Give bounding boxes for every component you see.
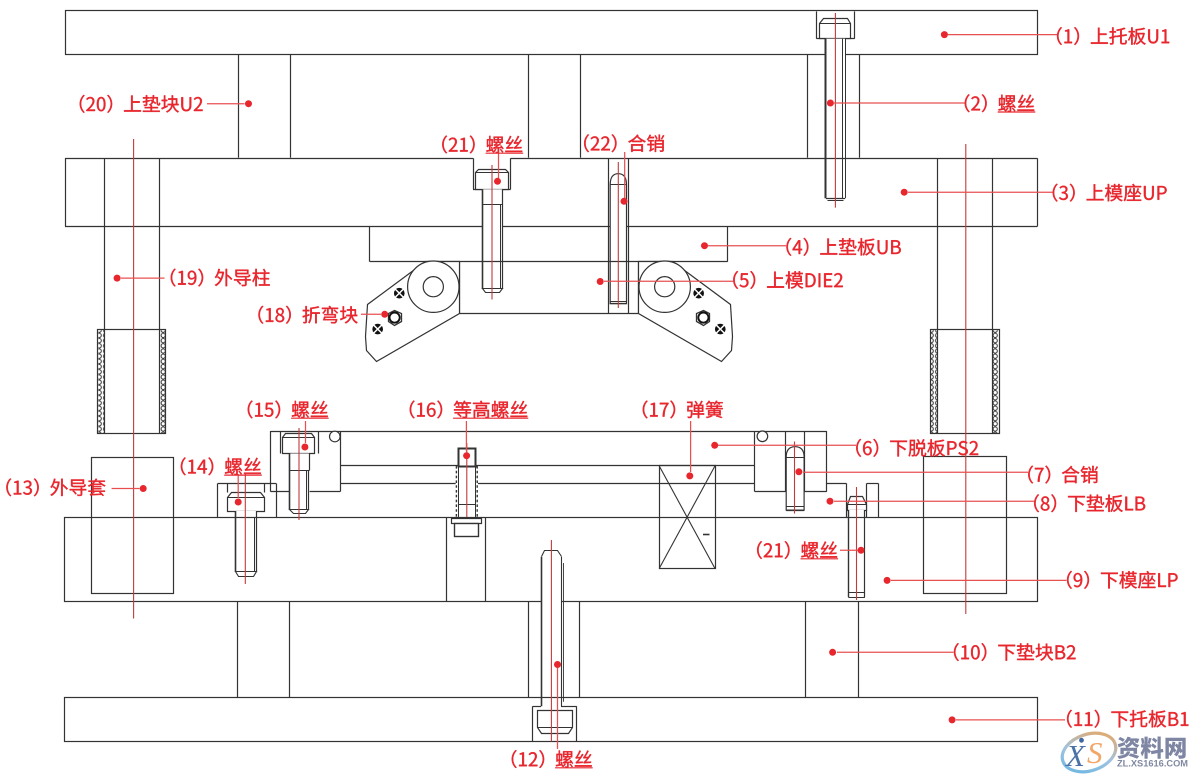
label (8) 下垫板LB [1034,494,1145,512]
shoulder screw S16 nut end [455,524,479,537]
leader dot 8 [827,498,834,505]
screw S21b (21 螺丝) head [848,497,867,511]
base plate B1 (11 下托板B1) [65,698,1038,742]
label (22) 合销 [584,134,664,152]
leader line 8 [834,500,1034,502]
screw S12 (12 螺丝) shaft [541,551,561,707]
leader dot 18 [381,311,388,318]
centerline right guide post axis [965,144,967,614]
leader dot 12 [554,661,561,668]
lower spacer B2 left column (10 下垫块B2) [237,601,239,697]
centerline screw S21b axis [856,487,858,600]
shoulder screw S16 (16 等高螺丝) threaded sleeve [456,466,478,517]
leader line 5 [604,280,733,282]
screw S2 (2 螺丝) head [820,19,851,39]
label (16) 等高螺丝 [410,401,528,419]
hex bushing on right bending block [697,311,710,326]
shoulder screw S16 head [459,449,476,467]
screw S21a tip [483,289,503,293]
PS2 left end block [270,431,272,492]
watermark 资料网 [1117,736,1185,758]
leader line 22 [624,152,626,198]
label (5) 上模DIE2 [733,271,843,289]
leader line 17 [690,421,692,472]
lower die plate edge (under PS2) [340,483,755,485]
leader dot 20 [245,100,252,107]
PS2 right end block [754,431,756,492]
svg-text:ZL.XS1616.COM: ZL.XS1616.COM [1117,759,1188,769]
label (4) 上垫板UB [786,238,900,256]
screw S12 head [538,711,573,734]
screw S15 pocket in PS2 block [280,431,282,454]
backing plate LB (8 下垫板LB) right segments [826,483,846,485]
label (15) 螺丝 [248,401,328,419]
screw S14 (14 螺丝) head [228,493,265,512]
leader dot 21a [494,178,501,185]
leader line 21b [840,549,858,551]
screw S21a neck and shaft [482,189,502,289]
label (11) 下托板B1 [1067,710,1188,728]
leader line 1 [948,34,1057,36]
guide post hole right through UP [937,158,939,226]
spring SP17 (17 弹簧) [660,466,716,569]
screw S21a (21 螺丝) head [476,170,509,190]
centerline screw S2 axis [834,13,836,208]
label (9) 下模座LP [1067,571,1177,589]
leader dot 1 [941,31,948,38]
leader dot 13 [140,485,147,492]
svg-text:X: X [1064,738,1086,773]
svg-text:S: S [1087,735,1103,770]
leader line 15 [305,421,307,443]
roller left on DIE2 [408,261,459,312]
bending block left (18 折弯块) [366,262,460,362]
spacer block U2 left column [238,55,240,158]
leader dot 16 [463,452,470,459]
lower die holder LP (9 下模座LP) [65,518,1038,602]
upper die DIE2 (5 上模DIE2) block [459,262,461,313]
leader dot 15 [301,444,308,451]
spacer block U2 right column [807,55,809,158]
leader dot 21b [858,547,865,554]
label (18) 折弯块 [258,306,357,324]
label (7) 合销 [1028,466,1098,484]
watermark logo dot [1079,738,1084,743]
screw S14 tip [236,572,257,577]
screw S14 pocket [227,483,229,492]
bending block right (18 折弯块) [639,262,733,362]
lower spacer B2 middle column [528,601,530,697]
screw S2 counterbore pocket in U1 [816,11,818,38]
dowel pin P7 channel in PS2 right block [785,431,787,492]
leader line 3 [908,191,1053,193]
label (17) 弹簧 [643,401,723,419]
leader dot 7 [795,468,802,475]
leader dot 5 [597,278,604,285]
label (2) 螺丝 [965,94,1034,112]
screw S21a pocket in UP [473,158,475,189]
leader line 20 [207,103,245,105]
leader dot 11 [949,716,956,723]
small pin hole circle left on PS2 [330,431,341,442]
stripper plate PS2 (6 下脱板PS2) top strip [271,431,827,433]
leader line 6 [718,444,856,446]
centerline screw S12 axis [550,540,552,741]
plate UB (4 上垫板UB) [369,227,371,262]
leader dot 19 [114,275,121,282]
leader dot 14 [235,499,242,506]
screw S2 tip [826,198,845,200]
leader line 14 [237,474,239,498]
label (20) 上垫块U2 [80,95,203,113]
guide post left knurled sleeve [98,330,166,434]
centerline screw S16 axis [466,443,468,517]
leader line 7 [803,471,1028,473]
screw S15 (15 螺丝) head [283,434,315,454]
plate UP (3 上模座UP) [65,158,473,160]
hex bushing on left bending block [389,311,402,326]
centerline screw S15 axis [298,428,300,520]
label (19) 外导柱 [171,269,270,287]
leader dot 3 [901,189,908,196]
dowel pin P7 (7 合销) body [786,447,804,510]
guide post left (19 外导柱) [104,227,106,434]
guide post right knurled sleeve [931,330,1000,434]
small pin hole circle right on PS2 [757,431,768,442]
centerline pin P22 axis [617,162,619,308]
screw S14 shaft [235,511,257,572]
PS2 strip bottom edge [340,465,755,467]
centerline pin P7 axis [794,442,796,514]
label (3) 上模座UP [1053,184,1167,202]
watermark logo ellipse [1057,727,1121,779]
S16 clearance hole in LP [446,517,448,601]
leader line 13 [112,488,140,490]
shoulder screw S16 washer [452,519,482,524]
screw S21b shaft [848,510,865,597]
label (12) 螺丝 [512,750,592,768]
leader line 19 [121,277,165,279]
socket screws on right bending block [693,288,704,299]
leader line 12 [557,668,559,749]
shoulder screw S16 shank lines [458,466,460,522]
leader line 10 [837,651,954,653]
leader line 4 [708,245,786,247]
screw S21b pocket walls in LB [846,483,848,517]
leader line 2 [834,102,965,104]
label (21) 螺丝 upper [442,136,522,154]
guide post hole left through UP [104,158,106,226]
leader dot 10 [829,649,836,656]
guide bushing right (13 外导套) [924,457,1007,594]
label (6) 下脱板PS2 [856,439,978,457]
dowel pin P22 (22 合销) body [610,174,626,304]
leader dot 4 [701,242,708,249]
screw S12 counterbore in B1 [532,706,534,741]
guide post right (19 外导柱) [937,227,939,434]
guide bushing left (13 外导套) [92,458,174,594]
leader line 21a [498,153,500,178]
screw S15 neck and shaft [290,454,310,510]
leader dot 17 [686,472,693,479]
clamp block for screw S14 [217,483,219,517]
roller right on DIE2 [639,261,690,312]
dowel pin P22 hole channel [608,158,610,313]
leader line 9 [891,579,1067,581]
label (21) 螺丝 lower [757,541,837,559]
plate U1 (top support plate 上托板U1) [66,11,1038,55]
leader dot 6 [711,442,718,449]
label (1) 上托板U1 [1057,27,1169,45]
centerline screw S14 axis [244,474,246,584]
centerline screw S21a axis [491,165,493,300]
socket screws on left bending block [394,288,405,299]
leader dot 22 [621,198,628,205]
lower spacer B2 right column [805,601,807,697]
leader dot 9 [884,577,891,584]
leader dot 2 [827,100,834,107]
leader line 11 [956,719,1065,721]
screw S2 shaft [826,39,845,200]
centerline left guide post axis [133,139,135,619]
label (10) 下垫块B2 [954,643,1076,661]
screw S15 tip [290,510,309,514]
leader line 16 [465,421,467,452]
label (14) 螺丝 [181,457,261,475]
leader line 18 [361,313,381,315]
label (13) 外导套 [6,478,105,496]
spacer block U2 middle column [528,55,530,158]
